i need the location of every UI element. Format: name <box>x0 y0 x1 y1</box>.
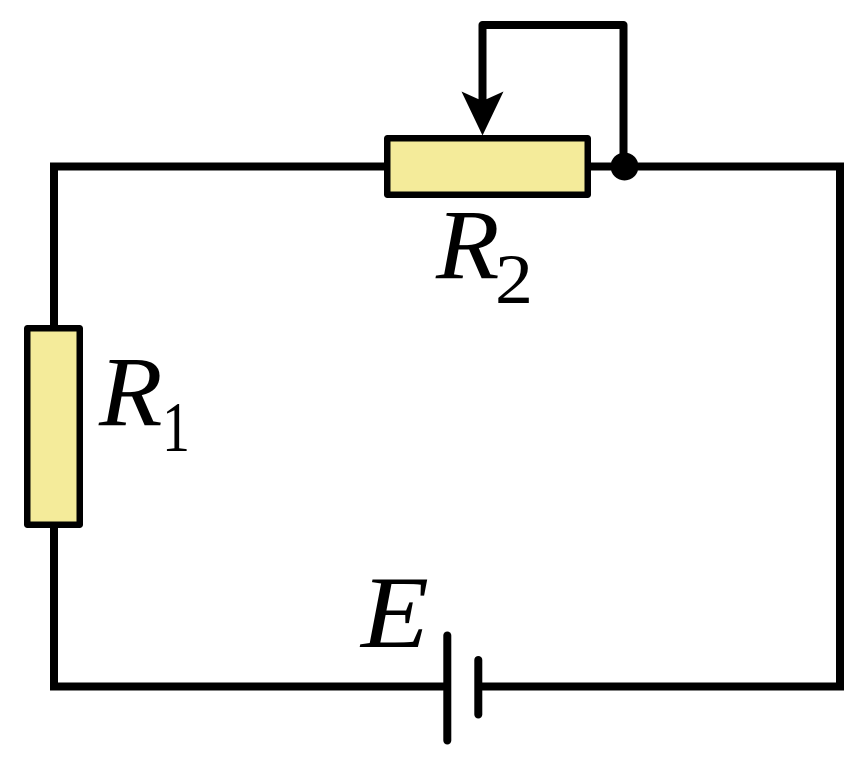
battery E long plate <box>443 636 451 741</box>
svg-text:1: 1 <box>162 389 190 467</box>
svg-text:E: E <box>359 556 429 670</box>
wire: bottom-left segment <box>54 524 448 687</box>
svg-text:R: R <box>435 189 500 300</box>
wiper arrowhead <box>462 92 504 136</box>
wire: rheostat wiper loop <box>483 25 624 167</box>
svg-text:R: R <box>98 336 163 447</box>
rheostat R2 <box>387 138 588 195</box>
svg-text:2: 2 <box>495 241 533 319</box>
resistor R1 <box>27 328 80 525</box>
battery E short plate <box>474 660 482 715</box>
node junction dot <box>611 153 639 181</box>
wire: left side + top + right side + bottom-right segment <box>54 167 840 687</box>
